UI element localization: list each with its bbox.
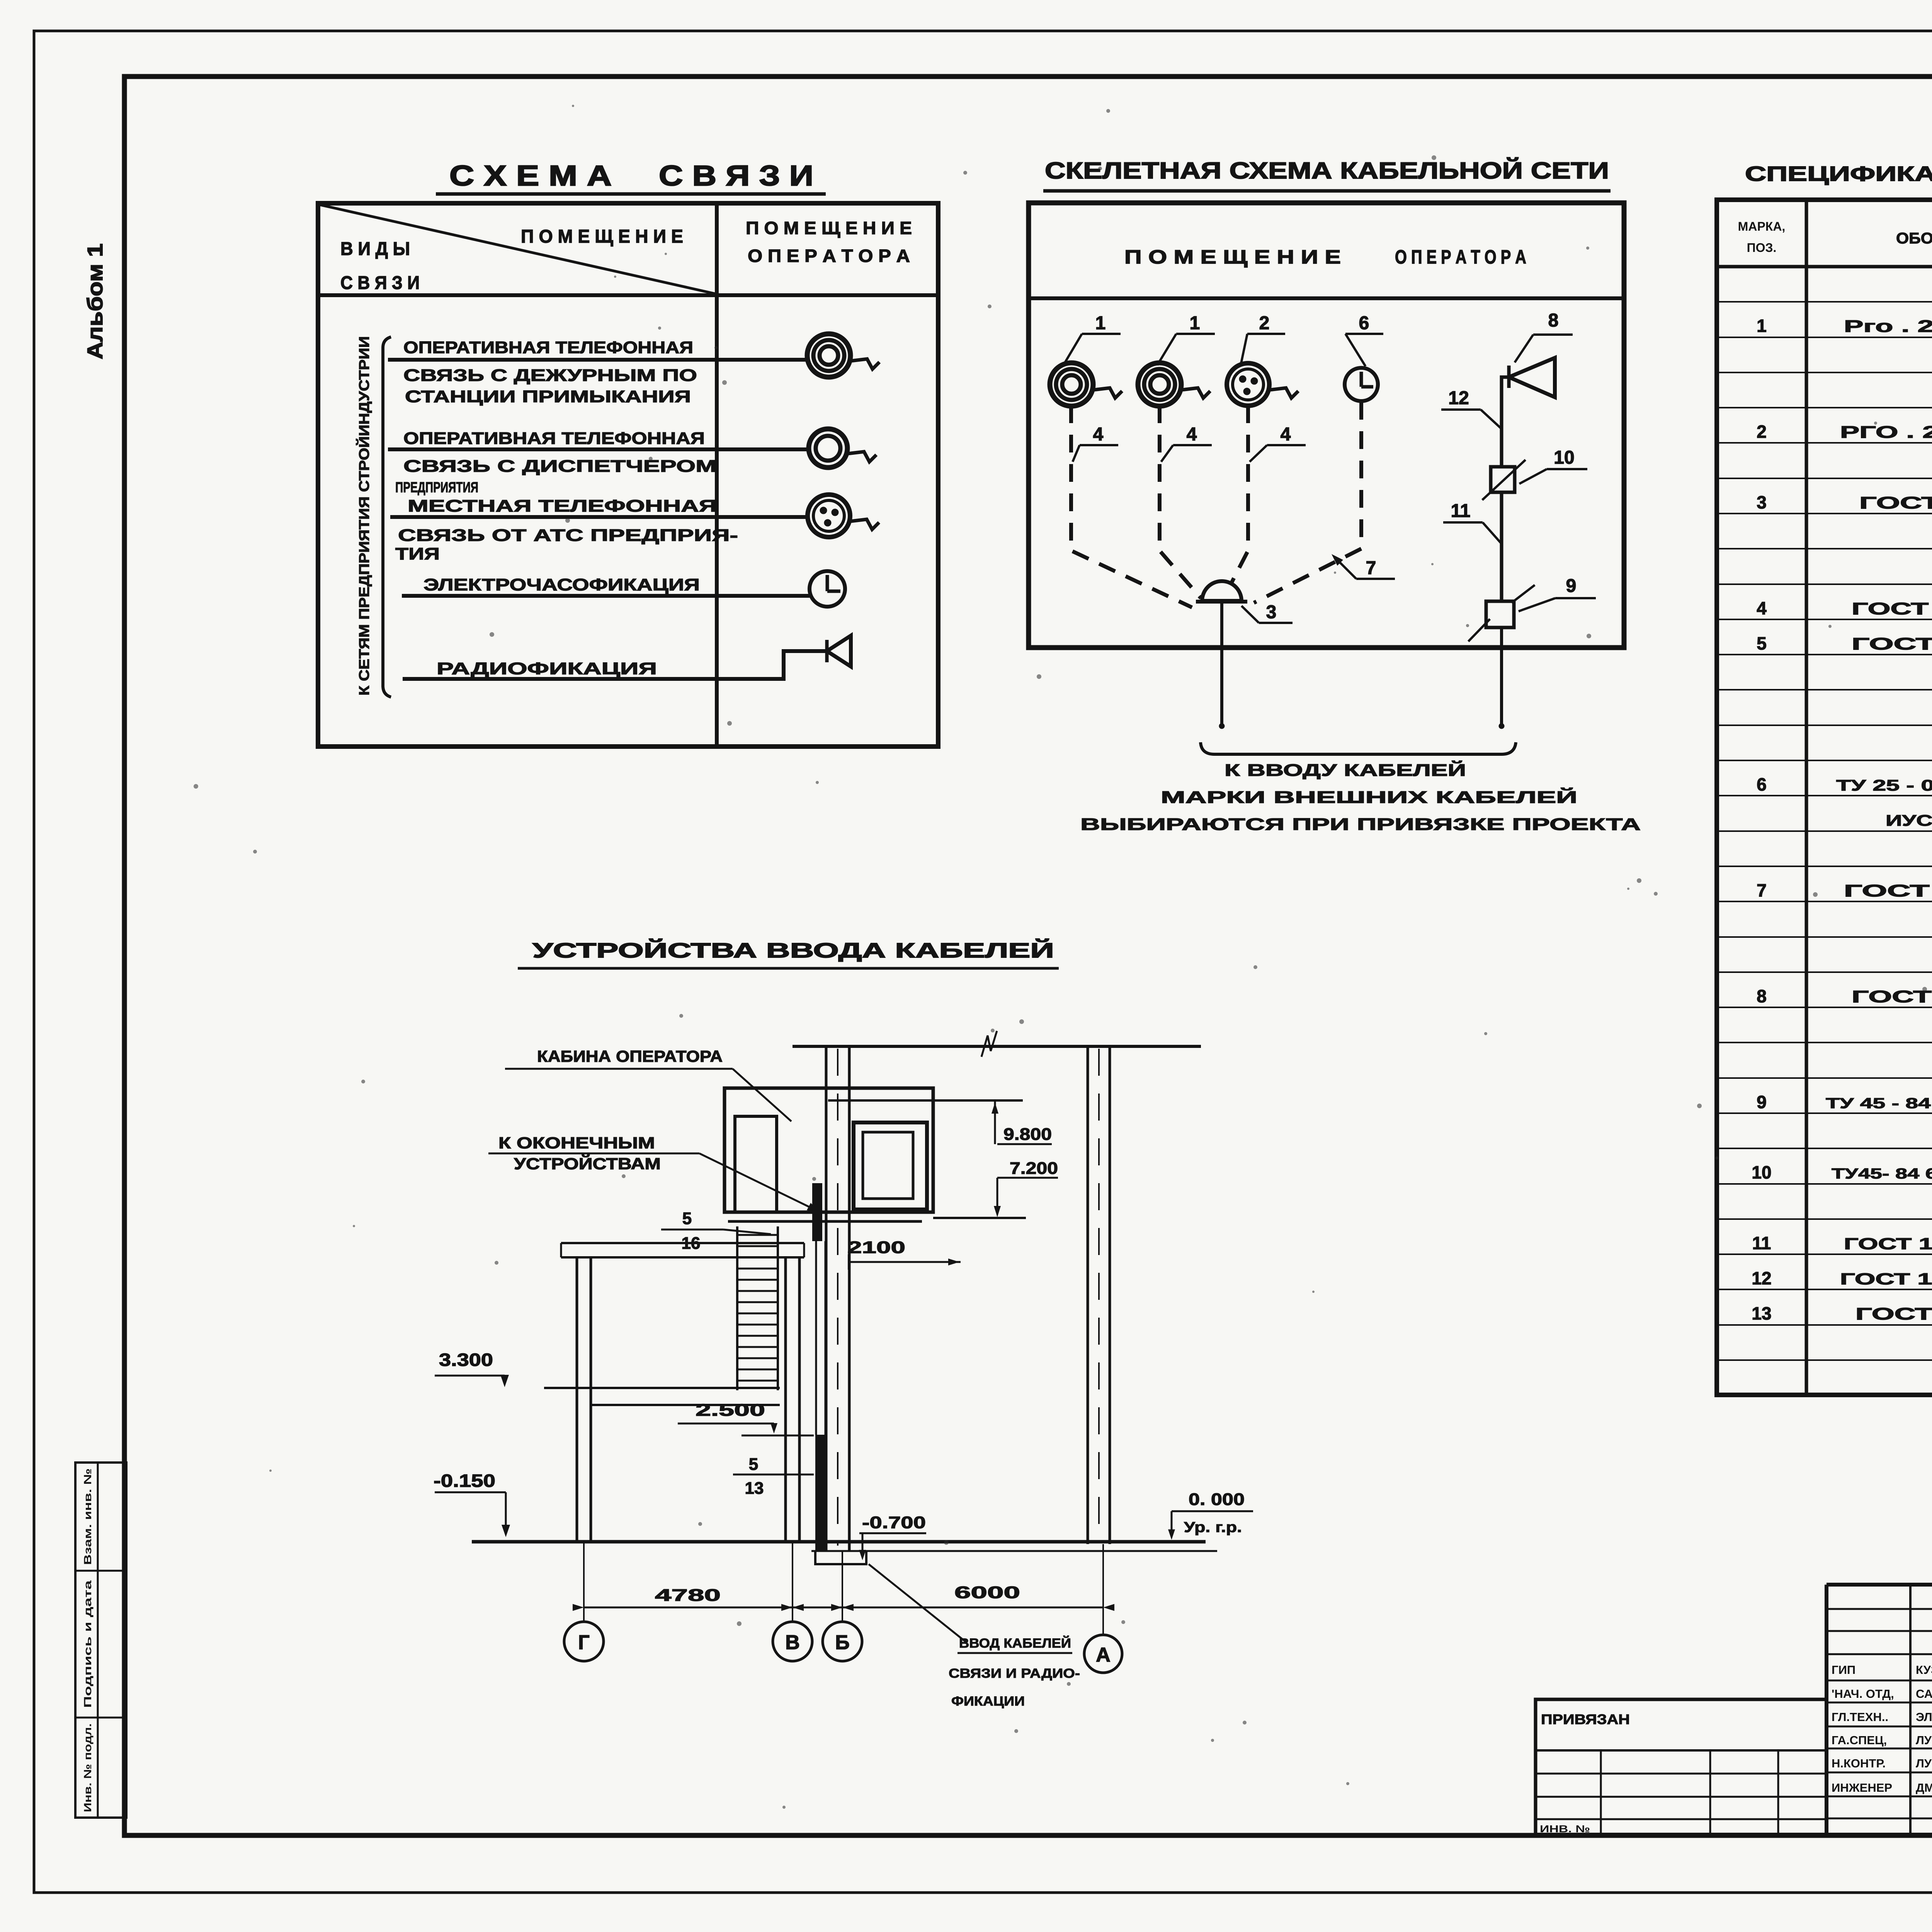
label 3: [1242, 602, 1293, 623]
svg-text:СПЕЦИФИКАЦИЯ ОБОРУДОВАНИЯ: СПЕЦИФИКАЦИЯ ОБОРУДОВАНИЯ И МАТЕРИАЛОВ: [1745, 162, 1932, 185]
svg-text:Взам. инв. №: Взам. инв. №: [82, 1468, 94, 1565]
svg-text:10: 10: [1752, 1162, 1771, 1182]
svg-text:7: 7: [1757, 880, 1767, 900]
symbol local telephone (row3): [808, 495, 879, 537]
svg-text:-0.700: -0.700: [862, 1513, 926, 1532]
skeletal symbol telephone 2: [1227, 363, 1298, 406]
svg-text:11: 11: [1451, 501, 1471, 521]
album label: [83, 243, 107, 359]
svg-text:Альбом 1: Альбом 1: [83, 243, 107, 359]
wire row3: [390, 515, 808, 519]
svg-text:ПРЕДПРИЯТИЯ: ПРЕДПРИЯТИЯ: [395, 480, 478, 496]
spec header bottom: [1717, 265, 1932, 269]
svg-text:СВЯЗЬ С ДЕЖУРНЫМ ПО: СВЯЗЬ С ДЕЖУРНЫМ ПО: [403, 366, 697, 385]
mid landing lines (el 3.300): [544, 1387, 780, 1389]
svg-text:Б: Б: [835, 1631, 849, 1654]
svg-text:ГОСТ 10254 - 75* Е: ГОСТ 10254 - 75* Е: [1840, 1270, 1932, 1288]
schema table column divider: [715, 203, 719, 747]
dashed wire 4 from phone 1b: [1160, 405, 1201, 598]
svg-text:РАДИОФИКАЦИЯ: РАДИОФИКАЦИЯ: [437, 659, 657, 678]
svg-text:СКЕЛЕТНАЯ СХЕМА КАБЕЛЬНОЙ СЕТИ: СКЕЛЕТНАЯ СХЕМА КАБЕЛЬНОЙ СЕТИ: [1045, 158, 1609, 184]
svg-text:ТУ 25 - 07 - 15 . 03. 82: ТУ 25 - 07 - 15 . 03. 82: [1836, 777, 1932, 794]
svg-text:ГОСТ 3262 - 75: ГОСТ 3262 - 75: [1855, 1304, 1932, 1323]
svg-text:2.500: 2.500: [696, 1401, 765, 1420]
skeletal symbol telephone 1b: [1138, 363, 1210, 406]
label 4 (wire c): [1250, 424, 1306, 462]
svg-text:ЛУКЬЯНОВА: ЛУКЬЯНОВА: [1916, 1733, 1932, 1747]
svg-text:РГО . 218. 070 ТУ: РГО . 218. 070 ТУ: [1840, 423, 1932, 442]
svg-text:ПОЗ.: ПОЗ.: [1747, 241, 1777, 255]
column B centerline: [837, 1049, 838, 1546]
svg-text:4: 4: [1187, 424, 1197, 445]
svg-text:САВИН: САВИН: [1916, 1687, 1932, 1701]
svg-text:ГЛ.ТЕХН..: ГЛ.ТЕХН..: [1832, 1710, 1888, 1724]
svg-text:ТУ 45 - 84 6е 0.362.013 ТУ: ТУ 45 - 84 6е 0.362.013 ТУ: [1826, 1095, 1932, 1112]
spec col lines: [1805, 200, 1808, 1395]
svg-text:ГОСТ 8525-78: ГОСТ 8525-78: [1859, 493, 1932, 512]
svg-text:К СЕТЯМ ПРЕДПРИЯТИЯ СТРОЙИНДУС: К СЕТЯМ ПРЕДПРИЯТИЯ СТРОЙИНДУСТРИИ: [356, 336, 372, 696]
svg-text:СТАНЦИИ ПРИМЫКАНИЯ: СТАНЦИИ ПРИМЫКАНИЯ: [405, 387, 691, 406]
signature table columns: [1909, 1585, 1912, 1835]
terminal device on cabin wall: [812, 1183, 822, 1241]
label 1 (first phone): [1063, 313, 1121, 365]
svg-text:ГОСТ 20520 -80: ГОСТ 20520 -80: [1852, 599, 1932, 618]
axis bubble V: [773, 1622, 812, 1661]
symbol telephone ATS (row2): [809, 429, 876, 468]
label 4 (wire a): [1073, 424, 1118, 462]
schema svyazi table frame: [318, 203, 938, 747]
scan speckle noise: [194, 105, 1932, 1809]
title block left heavy edge: [1825, 1585, 1828, 1835]
symbol clock (row4): [810, 571, 845, 607]
label 4 (wire b): [1161, 424, 1212, 462]
skeletal symbol telephone 1a: [1050, 363, 1122, 406]
svg-text:ГОСТ 10254 - 75* Е: ГОСТ 10254 - 75* Е: [1844, 1235, 1932, 1253]
svg-text:СВЯЗИ И РАДИО-: СВЯЗИ И РАДИО-: [949, 1666, 1080, 1681]
cable riser duct (black): [815, 1435, 827, 1551]
column A axis (double line): [1087, 1046, 1089, 1544]
svg-text:1: 1: [1095, 313, 1106, 333]
skeletal header line: [1029, 296, 1624, 300]
svg-text:П О М Е Щ Е Н И Е: П О М Е Щ Е Н И Е: [1124, 246, 1341, 268]
svg-text:1: 1: [1757, 316, 1767, 336]
label 12: [1441, 388, 1501, 428]
svg-text:13: 13: [745, 1479, 764, 1498]
svg-text:6000: 6000: [954, 1583, 1020, 1602]
svg-text:ГОСТ 20520-80: ГОСТ 20520-80: [1844, 881, 1932, 900]
svg-text:0. 000: 0. 000: [1189, 1490, 1245, 1509]
svg-text:ВЫБИРАЮТСЯ ПРИ ПРИВЯЗКЕ ПРО: ВЫБИРАЮТСЯ ПРИ ПРИВЯЗКЕ ПРОЕКТА: [1080, 815, 1641, 834]
svg-text:7: 7: [1366, 558, 1376, 578]
svg-text:1: 1: [1190, 313, 1200, 333]
stamp label podpis i data: [82, 1580, 94, 1708]
svg-text:9: 9: [1566, 576, 1577, 596]
title block top heavy line: [1827, 1583, 1932, 1587]
svg-text:Ур. г.р.: Ур. г.р.: [1184, 1519, 1242, 1536]
wire down from box 3: [1220, 602, 1223, 725]
svg-text:С В Я З И: С В Я З И: [659, 160, 813, 192]
svg-text:ИНВ. №: ИНВ. №: [1540, 1823, 1590, 1835]
cable riser lines down to duct: [815, 1241, 817, 1435]
svg-text:5: 5: [749, 1455, 758, 1474]
svg-text:УСТРОЙСТВАМ: УСТРОЙСТВАМ: [514, 1154, 661, 1173]
svg-text:ИНЖЕНЕР: ИНЖЕНЕР: [1832, 1781, 1892, 1794]
wire row1: [388, 358, 807, 362]
operator cabin outline: [724, 1088, 933, 1212]
svg-text:К ВВОДУ КАБЕЛЕЙ: К ВВОДУ КАБЕЛЕЙ: [1225, 760, 1466, 780]
dashed wire 4 from phone 1a: [1071, 405, 1192, 607]
wire 11: [1500, 492, 1503, 600]
svg-text:3: 3: [1266, 602, 1277, 622]
svg-text:9.800: 9.800: [1003, 1125, 1052, 1144]
svg-text:КУЗНЕЦОВ: КУЗНЕЦОВ: [1916, 1663, 1932, 1677]
svg-text:ГОСТ 3262 -75: ГОСТ 3262 -75: [1852, 634, 1932, 653]
svg-text:ЛУКЬЯНОВА: ЛУКЬЯНОВА: [1916, 1757, 1932, 1770]
svg-text:Инв. № подл.: Инв. № подл.: [82, 1723, 94, 1812]
svg-text:МАРКИ ВНЕШНИХ КАБЕЛЕЙ: МАРКИ ВНЕШНИХ КАБЕЛЕЙ: [1161, 787, 1577, 807]
svg-text:В И Д Ы: В И Д Ы: [340, 239, 410, 259]
svg-text:'НАЧ. ОТД,: 'НАЧ. ОТД,: [1832, 1687, 1894, 1701]
svg-text:4: 4: [1757, 598, 1767, 618]
svg-text:-0.150: -0.150: [434, 1471, 495, 1491]
svg-text:ГА.СПЕЦ,: ГА.СПЕЦ,: [1832, 1733, 1887, 1747]
svg-text:5: 5: [1757, 633, 1767, 653]
label 11: [1443, 501, 1501, 543]
svg-text:10: 10: [1554, 447, 1574, 468]
svg-text:ГОСТ 5961 - 76: ГОСТ 5961 - 76: [1852, 987, 1932, 1006]
svg-text:Подпись и дата: Подпись и дата: [82, 1580, 94, 1708]
dashed wire from clock 6: [1254, 402, 1361, 603]
svg-text:О П Е Р А Т О Р А: О П Е Р А Т О Р А: [1395, 246, 1526, 268]
schema table header bottom: [318, 293, 938, 297]
svg-text:С Х Е М А: С Х Е М А: [449, 160, 612, 192]
stamp label inv n podl: [82, 1723, 94, 1812]
svg-text:9: 9: [1757, 1092, 1767, 1112]
wire down from box 9: [1500, 628, 1503, 725]
limiting box 10: [1482, 460, 1526, 500]
svg-text:11: 11: [1752, 1233, 1771, 1253]
svg-text:УСТРОЙСТВА ВВОДА КАБЕЛЕЙ: УСТРОЙСТВА ВВОДА КАБЕЛЕЙ: [532, 939, 1054, 962]
label 9: [1519, 576, 1596, 611]
brace to cable entry: [1201, 742, 1516, 754]
label 10: [1519, 447, 1587, 484]
label 7 arrow: [1332, 554, 1395, 579]
ground floor line: [472, 1540, 1206, 1544]
svg-text:8: 8: [1548, 310, 1559, 331]
label 8: [1515, 310, 1573, 362]
skeletal scheme box: [1029, 203, 1624, 648]
column G axis (legs): [576, 1257, 578, 1542]
label 2: [1241, 313, 1285, 363]
svg-text:ГИП: ГИП: [1832, 1663, 1855, 1677]
left margin stamp table: [75, 1463, 126, 1818]
schema table diagonal: [320, 205, 715, 294]
symbol loudspeaker (row5): [827, 636, 851, 667]
svg-text:О П Е Р А Т О Р А: О П Е Р А Т О Р А: [748, 246, 910, 266]
wire row4: [402, 594, 810, 598]
svg-text:6: 6: [1757, 774, 1767, 794]
stamp label vzam inv: [82, 1468, 94, 1565]
distribution box 3 (semicircle): [1202, 581, 1242, 601]
svg-text:2: 2: [1259, 313, 1270, 333]
column B axis (double line): [825, 1046, 828, 1550]
svg-text:СВЯЗЬ С ДИСПЕТЧЕРОМ: СВЯЗЬ С ДИСПЕТЧЕРОМ: [403, 457, 716, 476]
loudspeaker 8: [1509, 358, 1555, 397]
svg-text:4: 4: [1281, 424, 1291, 445]
dashed wire 4 from phone 2: [1229, 405, 1248, 588]
vertical net label k setyam predpriyatiya stroyindustrii: [356, 336, 372, 696]
svg-text:12: 12: [1752, 1268, 1771, 1288]
column A centerline: [1098, 1049, 1100, 1542]
svg-text:Н.КОНТР.: Н.КОНТР.: [1832, 1757, 1886, 1770]
cabin floor slab line: [728, 1220, 922, 1223]
svg-text:ОПЕРАТИВНАЯ ТЕЛЕФОННАЯ: ОПЕРАТИВНАЯ ТЕЛЕФОННАЯ: [403, 338, 693, 357]
platform top: [561, 1242, 804, 1244]
svg-text:Г: Г: [578, 1631, 589, 1654]
label 6: [1345, 313, 1383, 366]
svg-text:13: 13: [1752, 1303, 1771, 1323]
label 1 (second phone): [1157, 313, 1215, 365]
svg-text:П О М Е Щ Е Н И Е: П О М Е Щ Е Н И Е: [521, 226, 683, 247]
svg-text:ТИЯ: ТИЯ: [395, 544, 440, 563]
junction box 9: [1468, 585, 1535, 641]
svg-text:Рго . 218. 070 ТУ: Рго . 218. 070 ТУ: [1844, 317, 1932, 336]
svg-text:6: 6: [1359, 313, 1369, 333]
svg-text:2100: 2100: [847, 1238, 905, 1257]
svg-text:3.300: 3.300: [439, 1350, 493, 1370]
svg-text:4: 4: [1093, 424, 1104, 445]
cable entry pit: [815, 1550, 866, 1564]
bracket k setyam: [383, 337, 391, 697]
axis bubble A: [1084, 1635, 1122, 1673]
svg-text:К ОКОНЕЧНЫМ: К ОКОНЕЧНЫМ: [498, 1134, 655, 1152]
wire row5 (bent): [403, 651, 827, 679]
privyazan block: [1536, 1699, 1827, 1835]
signature table rows: [1827, 1608, 1932, 1610]
svg-text:ФИКАЦИИ: ФИКАЦИИ: [951, 1694, 1025, 1709]
cabin floor line extension: [933, 1217, 1026, 1219]
break mark: [981, 1031, 997, 1057]
svg-text:СВЯЗЬ ОТ АТС ПРЕДПРИЯ-: СВЯЗЬ ОТ АТС ПРЕДПРИЯ-: [398, 526, 738, 545]
symbol telephone CB (row1): [807, 334, 879, 377]
svg-text:ИУС - 83: ИУС - 83: [1886, 812, 1932, 829]
dimension line axes: [584, 1607, 1103, 1609]
svg-text:ЭЛЬКЕС: ЭЛЬКЕС: [1916, 1710, 1932, 1724]
crane rail top line: [793, 1045, 1201, 1048]
svg-text:КАБИНА ОПЕРАТОРА: КАБИНА ОПЕРАТОРА: [537, 1047, 723, 1065]
wire row2: [388, 447, 809, 451]
svg-text:ВВОД КАБЕЛЕЙ: ВВОД КАБЕЛЕЙ: [959, 1636, 1071, 1651]
svg-text:А: А: [1096, 1644, 1111, 1666]
skeletal symbol clock 6: [1345, 368, 1378, 401]
cabin window outer: [854, 1122, 927, 1209]
spec row lines: [1717, 301, 1932, 303]
window head line to column A: [828, 1099, 1023, 1102]
column V axis: [784, 1257, 787, 1542]
svg-text:7.200: 7.200: [1010, 1159, 1058, 1178]
svg-text:С В Я З И: С В Я З И: [340, 273, 420, 293]
svg-text:3: 3: [1757, 492, 1767, 512]
staircase rungs: [737, 1234, 778, 1236]
svg-text:ТУ45- 84 6е 0 . 362. 013 ТУ: ТУ45- 84 6е 0 . 362. 013 ТУ: [1832, 1166, 1932, 1182]
cabin door: [735, 1116, 777, 1212]
wire 12: [1502, 377, 1509, 467]
svg-text:МАРКА,: МАРКА,: [1738, 219, 1786, 233]
axis bubble B: [823, 1622, 862, 1661]
svg-text:ОПЕРАТИВНАЯ ТЕЛЕФОННАЯ: ОПЕРАТИВНАЯ ТЕЛЕФОННАЯ: [403, 429, 705, 448]
svg-text:8: 8: [1757, 986, 1767, 1006]
svg-text:МЕСТНАЯ ТЕЛЕФОННАЯ: МЕСТНАЯ ТЕЛЕФОННАЯ: [408, 497, 717, 515]
cabin window inner: [863, 1132, 913, 1199]
axis bubble G: [564, 1622, 604, 1661]
svg-text:ПРИВЯЗАН: ПРИВЯЗАН: [1541, 1711, 1630, 1727]
svg-text:4780: 4780: [655, 1586, 721, 1605]
axis drop lines: [583, 1542, 585, 1622]
svg-text:П О М Е Щ Е Н И Е: П О М Е Щ Е Н И Е: [746, 218, 912, 238]
svg-text:2: 2: [1757, 422, 1767, 442]
signature table bottom: [1536, 1833, 1932, 1837]
leader to cable entry note: [869, 1564, 967, 1643]
spec table frame: [1717, 200, 1932, 1395]
svg-text:12: 12: [1448, 388, 1469, 408]
svg-text:ЭЛЕКТРОЧАСОФИКАЦИЯ: ЭЛЕКТРОЧАСОФИКАЦИЯ: [423, 575, 700, 594]
staircase stringers: [736, 1226, 738, 1390]
svg-text:ОБОЗНАЧЕНИЕ: ОБОЗНАЧЕНИЕ: [1896, 230, 1932, 247]
svg-text:В: В: [785, 1631, 800, 1654]
svg-text:5: 5: [682, 1209, 692, 1228]
svg-text:ДМИТРИЕВА: ДМИТРИЕВА: [1916, 1781, 1932, 1794]
